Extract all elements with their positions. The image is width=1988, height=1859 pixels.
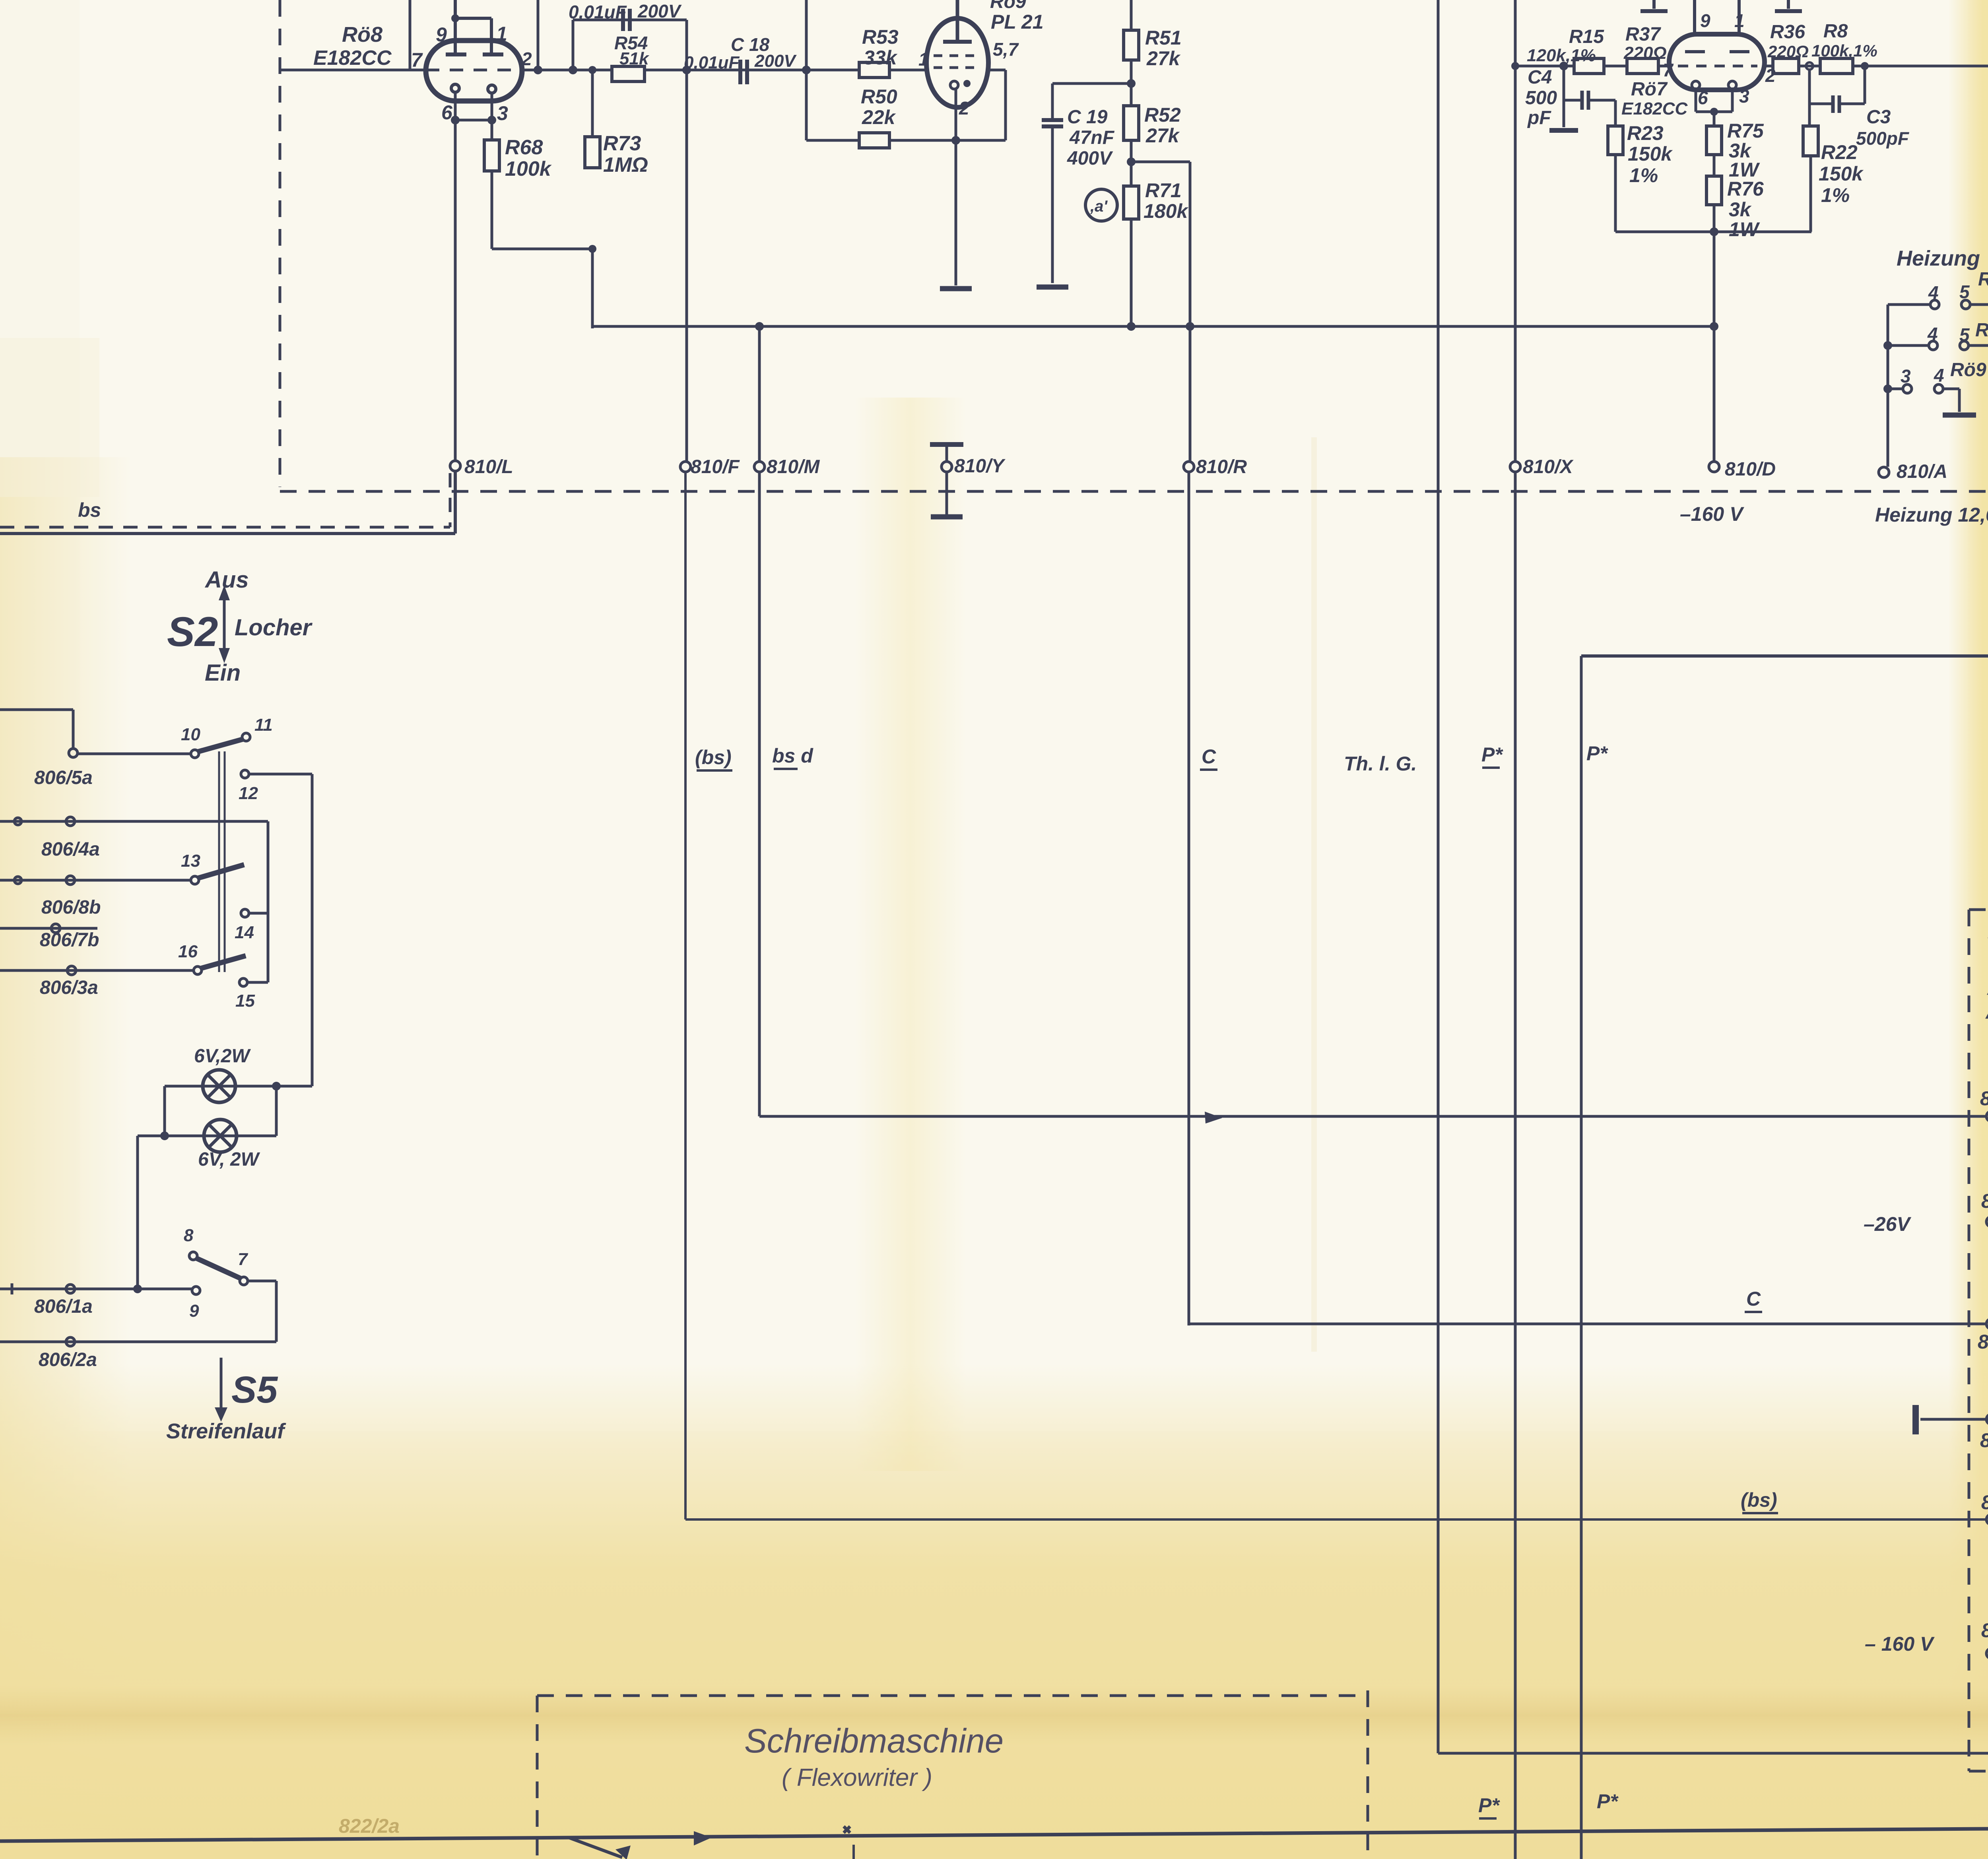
svg-text:810/X: 810/X [1523,456,1574,477]
svg-text:811/21: 811/21 [1980,1087,1988,1110]
svg-text:12: 12 [239,784,258,803]
svg-text:811/19: 811/19 [1981,1491,1988,1514]
svg-text:16: 16 [178,942,198,961]
svg-text:C: C [1746,1288,1761,1310]
svg-text:822/2a: 822/2a [339,1815,400,1837]
svg-text:806/5a: 806/5a [34,767,93,788]
svg-text:810/D: 810/D [1725,459,1776,480]
svg-text:200V: 200V [637,1,682,21]
svg-text:Aus: Aus [204,567,249,593]
svg-text:bs d: bs d [772,745,813,767]
svg-text:810/M: 810/M [767,456,820,477]
svg-text:15: 15 [235,991,255,1011]
svg-text:13: 13 [181,851,200,871]
svg-text:R53: R53 [862,26,899,48]
svg-text:6: 6 [441,101,453,124]
svg-text:806/7b: 806/7b [40,929,99,951]
svg-text:47nF: 47nF [1069,127,1115,148]
svg-text:3: 3 [497,102,508,124]
svg-text:R36: R36 [1770,21,1805,43]
svg-text:P*: P* [1597,1790,1619,1812]
svg-text:811/27: 811/27 [1981,1190,1988,1212]
svg-text:810/F: 810/F [691,456,740,477]
svg-text:0,01uF: 0,01uF [569,2,627,22]
svg-text:5: 5 [1959,281,1970,302]
svg-text:Locher: Locher [235,615,313,640]
svg-text:P*: P* [1586,742,1608,765]
svg-text:C4: C4 [1528,67,1552,88]
svg-text:9: 9 [1700,10,1710,31]
svg-text:150k: 150k [1819,163,1864,185]
svg-text:Heizung: Heizung [1897,246,1980,270]
svg-text:811/31: 811/31 [1980,1429,1988,1451]
svg-text:Th. l. G.: Th. l. G. [1344,753,1417,775]
svg-text:3: 3 [1901,366,1911,386]
svg-text:33k: 33k [864,47,898,69]
svg-text:9: 9 [189,1301,199,1321]
svg-text:R73: R73 [603,132,641,155]
svg-text:3: 3 [1739,86,1749,107]
svg-text:27k: 27k [1146,47,1181,70]
svg-text:11: 11 [254,715,273,735]
svg-text:6: 6 [1698,87,1708,108]
svg-text:8: 8 [184,1226,194,1245]
svg-text:pF: pF [1527,107,1551,128]
svg-text:500pF: 500pF [1856,128,1910,149]
svg-text:–160 V: –160 V [1680,503,1744,525]
svg-text:810/L: 810/L [464,456,513,477]
svg-text:C3: C3 [1866,107,1891,128]
svg-text:100k,1%: 100k,1% [1811,41,1877,60]
svg-text:E182CC: E182CC [1621,99,1688,118]
svg-text:51k: 51k [619,49,650,68]
svg-text:1%: 1% [1629,164,1658,186]
svg-text:6V, 2W: 6V, 2W [198,1149,260,1170]
svg-text:180k: 180k [1143,200,1188,222]
svg-text:1%: 1% [1821,184,1850,206]
svg-text:R75: R75 [1727,120,1764,142]
svg-text:806/8b: 806/8b [41,897,101,918]
svg-text:120k,1%: 120k,1% [1527,46,1596,65]
svg-text:R68: R68 [505,136,543,159]
svg-text:27k: 27k [1145,124,1180,147]
svg-text:–26V: –26V [1864,1213,1911,1235]
svg-text:1W: 1W [1729,218,1760,241]
svg-text:R76: R76 [1727,178,1764,200]
svg-text:C 19: C 19 [1067,107,1108,128]
svg-text:2: 2 [1765,65,1776,86]
svg-text:7: 7 [238,1250,248,1269]
svg-text:810/R: 810/R [1196,456,1247,477]
svg-text:5: 5 [1959,324,1970,345]
svg-text:,a': ,a' [1090,198,1108,215]
svg-text:Rö7: Rö7 [1631,79,1668,100]
svg-text:Rö8: Rö8 [342,23,382,47]
svg-text:S2: S2 [167,609,218,655]
svg-text:806/4a: 806/4a [41,839,100,860]
svg-text:150k: 150k [1628,143,1673,165]
svg-text:Heizung 12,6 V~: Heizung 12,6 V~ [1875,504,1988,526]
svg-text:( Flexowriter ): ( Flexowriter ) [782,1764,932,1791]
svg-text:806/1a: 806/1a [34,1296,93,1317]
svg-text:400V: 400V [1067,148,1113,169]
svg-text:806/3a: 806/3a [40,977,98,998]
svg-text:R8: R8 [1823,21,1848,42]
svg-text:Rö9: Rö9 [1950,359,1986,380]
svg-text:6V,2W: 6V,2W [194,1046,251,1067]
svg-text:(bs): (bs) [695,746,732,768]
svg-text:0,01uF: 0,01uF [684,53,740,72]
svg-text:2: 2 [959,98,969,118]
svg-text:811/20: 811/20 [1978,1331,1988,1353]
svg-text:R71: R71 [1145,179,1182,202]
svg-text:100k: 100k [505,157,552,180]
svg-text:3k: 3k [1729,198,1752,221]
svg-text:7: 7 [411,49,423,71]
svg-text:1: 1 [1734,10,1745,31]
svg-text:R37: R37 [1625,24,1661,45]
svg-text:811/25: 811/25 [1981,1619,1988,1642]
svg-text:14: 14 [235,923,254,942]
svg-text:S5: S5 [231,1369,278,1411]
svg-text:bs: bs [78,499,101,521]
svg-text:E182CC: E182CC [313,47,392,70]
svg-text:5,7: 5,7 [993,39,1019,60]
svg-text:R23: R23 [1627,122,1664,144]
svg-text:9: 9 [436,23,447,46]
svg-text:7: 7 [1663,60,1674,80]
svg-text:P*: P* [1478,1794,1500,1816]
svg-text:R15: R15 [1569,26,1604,47]
svg-text:810/A: 810/A [1897,461,1947,482]
svg-text:C: C [1202,745,1216,768]
svg-text:220Ω: 220Ω [1623,43,1667,63]
svg-text:R51: R51 [1145,27,1182,49]
svg-text:R22: R22 [1821,141,1858,163]
svg-text:P*: P* [1481,743,1503,766]
svg-text:R50: R50 [861,85,897,108]
svg-text:806/2a: 806/2a [39,1349,97,1370]
svg-text:10: 10 [181,725,200,744]
svg-text:1MΩ: 1MΩ [603,153,648,177]
svg-text:4: 4 [1927,324,1938,344]
svg-text:Alle Widerstände:½W: Alle Widerstände:½W [1985,1002,1988,1023]
svg-text:1: 1 [918,49,929,70]
svg-text:1: 1 [496,23,507,45]
svg-text:2: 2 [521,49,532,69]
svg-text:4: 4 [1928,282,1939,303]
svg-text:22k: 22k [862,106,896,128]
svg-text:200V: 200V [754,51,797,71]
svg-text:500: 500 [1525,87,1557,109]
svg-text:Ein: Ein [205,660,241,686]
svg-text:Streifenlauf: Streifenlauf [166,1419,286,1443]
svg-text:– 160 V: – 160 V [1865,1633,1935,1655]
svg-text:R52: R52 [1144,104,1181,126]
svg-text:Schreibmaschine: Schreibmaschine [744,1722,1004,1760]
svg-text:Rö8: Rö8 [1975,320,1988,341]
svg-text:4: 4 [1934,365,1944,386]
svg-text:220Ω: 220Ω [1767,42,1809,61]
svg-text:(bs): (bs) [1741,1489,1777,1511]
svg-text:PL 21: PL 21 [991,11,1044,33]
svg-text:810/Y: 810/Y [954,456,1006,477]
svg-text:Rö7: Rö7 [1978,269,1988,290]
